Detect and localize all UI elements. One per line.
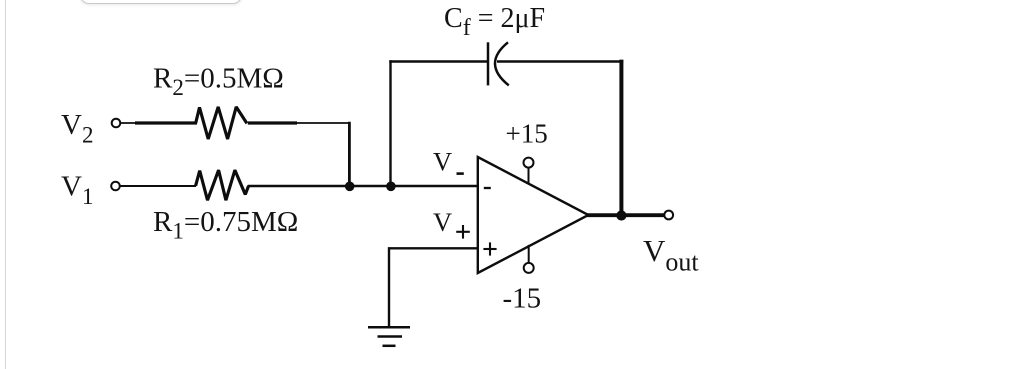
wire V2 to R2 (thick lead)	[135, 121, 197, 124]
label V- (inverting input)	[433, 147, 452, 177]
label Cf = 2µF	[444, 3, 545, 41]
svg-text:+15: +15	[506, 119, 548, 149]
power terminal -15 stem	[528, 245, 530, 263]
junction output node	[616, 210, 626, 220]
wire R2 to corner (thick)	[248, 121, 297, 124]
page chrome: left divider line	[5, 0, 6, 369]
label +15	[506, 119, 548, 149]
capacitor Cf curved plate	[495, 42, 509, 85]
junction feedback tap node	[386, 182, 396, 192]
capacitor Cf flat plate	[487, 42, 490, 85]
power terminal +15 circle	[524, 158, 534, 168]
page chrome: cut-off rounded card at top	[80, 0, 242, 4]
input terminal V1	[111, 182, 120, 191]
label -15	[503, 283, 542, 315]
wire feedback left vertical	[389, 60, 391, 186]
label V2	[61, 109, 93, 148]
svg-text:R2=0.5MΩ: R2=0.5MΩ	[153, 63, 284, 101]
junction summing node	[345, 182, 355, 192]
svg-text:V1: V1	[61, 171, 93, 210]
svg-text:V: V	[433, 147, 452, 177]
resistor R1	[196, 170, 249, 200]
svg-text:V: V	[433, 207, 452, 237]
output terminal Vout circle	[664, 211, 673, 220]
label R1=0.75MΩ	[153, 206, 298, 244]
wire R2 corner segment (thin)	[296, 122, 351, 124]
wire feedback top right	[497, 60, 623, 62]
svg-text:Cf = 2μF: Cf = 2μF	[444, 3, 545, 41]
label V+ (non-inverting input)	[433, 207, 452, 237]
svg-text:V2: V2	[61, 109, 93, 148]
wire V2 terminal to R2 (thin lead)	[121, 122, 140, 124]
ground	[368, 327, 410, 346]
label V+ subscript plus	[456, 225, 470, 239]
wire R1 to inverting input of op-amp	[248, 185, 478, 187]
resistor R2	[196, 107, 247, 139]
label R2=0.5MΩ	[153, 63, 284, 101]
svg-text:Vout: Vout	[643, 233, 699, 277]
wire V2 branch vertical drop	[348, 122, 351, 187]
wire V+ input and ground stem	[389, 248, 478, 328]
wire feedback right vertical (thick)	[619, 60, 623, 217]
op-amp U1 triangle	[478, 157, 589, 273]
svg-text:R1=0.75MΩ: R1=0.75MΩ	[153, 206, 298, 244]
label V- subscript minus	[457, 172, 464, 175]
label V1	[61, 171, 93, 210]
label Vout	[643, 233, 699, 277]
power terminal -15 circle	[524, 263, 534, 273]
wire V1 terminal to R1	[120, 185, 196, 187]
op-amp plus pin mark	[483, 242, 496, 255]
input terminal V2	[112, 119, 121, 128]
wire op-amp output	[587, 213, 665, 217]
svg-text:-15: -15	[503, 283, 542, 315]
wire feedback top left	[389, 60, 488, 62]
power terminal +15 stem	[528, 168, 530, 185]
op-amp minus pin mark	[484, 187, 491, 189]
